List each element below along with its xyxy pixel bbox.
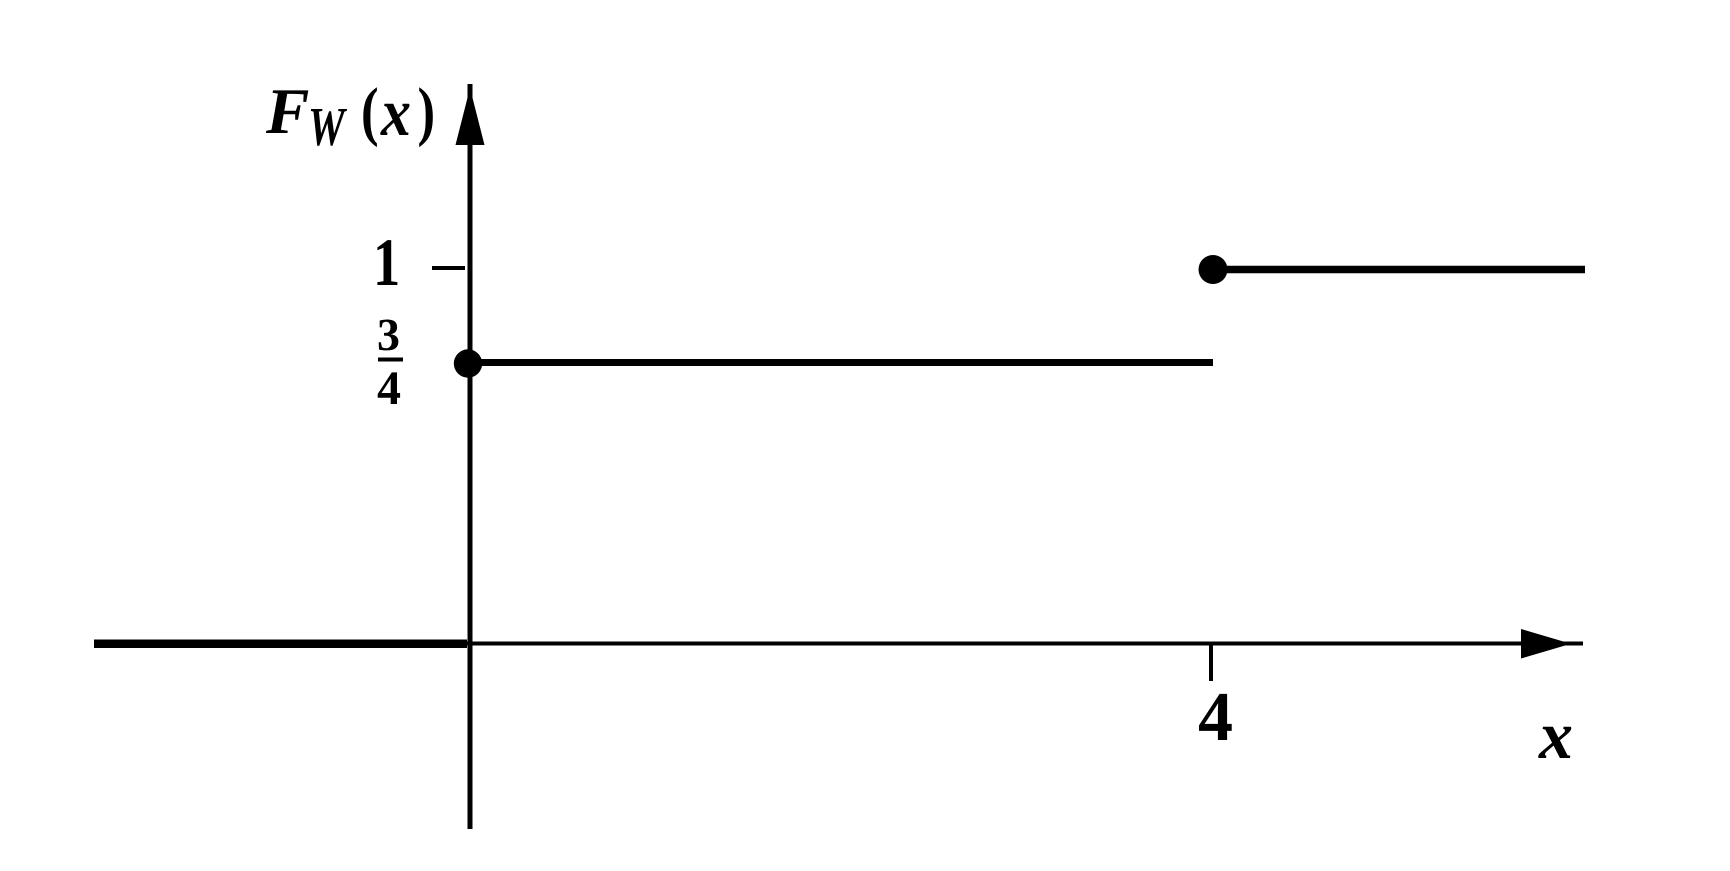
step segment at F = 0 (thick overlay on x-axis for x &lt; 0): [94, 640, 467, 649]
axis label F_W(x) : letter F: [266, 90, 308, 133]
axis label F_W(x) : right parenthesis: [419, 87, 433, 147]
tick label 3/4 : fraction bar: [378, 358, 403, 362]
axis label x: [1538, 727, 1571, 758]
x-axis arrowhead: [1521, 629, 1571, 659]
axis label F_W(x) : left parenthesis: [363, 87, 377, 147]
tick mark for x = 4: [1209, 645, 1213, 681]
y-axis: [468, 84, 473, 829]
filled point at (4, 1): [1199, 255, 1228, 284]
x-axis: [94, 642, 1583, 646]
step segment at F = 1 (x &gt;= 4): [1213, 266, 1585, 274]
tick label 3/4 : numerator 3: [379, 320, 399, 351]
tick label 3/4 : denominator 4: [378, 372, 400, 404]
filled point at (0, 3/4): [454, 349, 482, 377]
axis label F_W(x) : subscript W: [311, 109, 347, 146]
tick label 1: [377, 240, 397, 285]
axis label F_W(x) : letter x: [380, 104, 409, 135]
y-axis arrowhead: [456, 88, 485, 145]
tick mark for y = 1: [432, 266, 465, 270]
step segment at F = 3/4 (0 &lt;= x &lt; 4): [468, 359, 1213, 366]
tick label 4: [1199, 694, 1232, 740]
